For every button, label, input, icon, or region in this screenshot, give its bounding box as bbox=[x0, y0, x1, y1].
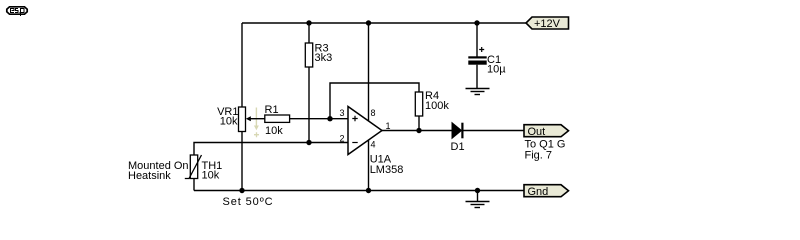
svg-text:8: 8 bbox=[371, 108, 376, 118]
ground under C1 bbox=[466, 89, 490, 95]
net label +12V bbox=[526, 17, 569, 30]
node top rail / C1 bbox=[474, 20, 479, 25]
svg-text:R1: R1 bbox=[265, 104, 279, 116]
svg-text:Fig. 7: Fig. 7 bbox=[525, 150, 553, 162]
svg-text:10k: 10k bbox=[265, 125, 283, 137]
diode D1 bbox=[451, 123, 465, 153]
wire top +12V rail bbox=[242, 22, 526, 24]
svg-text:10k: 10k bbox=[202, 170, 220, 182]
op-amp U1A bbox=[340, 107, 404, 177]
wire pin4 bbox=[368, 140, 370, 191]
svg-text:Out: Out bbox=[528, 126, 546, 138]
wire R3 top bbox=[308, 23, 310, 43]
resistor R3 bbox=[305, 43, 332, 68]
net label Out bbox=[524, 125, 569, 138]
wire wiper to R1 bbox=[250, 118, 265, 120]
wire ground stub bottom rail bbox=[477, 191, 479, 202]
wire VR1 bottom bbox=[241, 132, 243, 191]
ground bottom rail bbox=[466, 202, 490, 208]
thermistor TH1 bbox=[185, 155, 222, 182]
node bottom rail / VR1 bbox=[239, 188, 244, 193]
wire C1 top bbox=[476, 23, 478, 57]
wire D1 to Out bbox=[464, 130, 525, 132]
node top rail / pin8 bbox=[366, 20, 371, 25]
wire R1 to pin3 bbox=[290, 118, 348, 120]
net label Gnd bbox=[524, 185, 569, 198]
wire TH1 bottom bbox=[193, 179, 195, 191]
svg-text:1: 1 bbox=[386, 121, 391, 131]
svg-text:Set 50ºC: Set 50ºC bbox=[223, 196, 274, 208]
svg-text:Heatsink: Heatsink bbox=[128, 170, 171, 182]
wire R3 bottom bbox=[308, 67, 310, 143]
node R4 / output bbox=[416, 128, 421, 133]
wire C1 bottom bbox=[476, 65, 478, 89]
svg-text:Gnd: Gnd bbox=[528, 186, 549, 198]
svg-text:2: 2 bbox=[340, 134, 345, 144]
node R3 / pin2 wire bbox=[306, 140, 311, 145]
capacitor C1 bbox=[468, 47, 506, 76]
resistor R1 bbox=[265, 104, 290, 137]
svg-text:4: 4 bbox=[371, 140, 376, 150]
wire R4 bottom bbox=[418, 116, 420, 131]
svg-text:3k3: 3k3 bbox=[315, 52, 333, 64]
potentiometer VR1 bbox=[217, 106, 259, 137]
svg-text:10k: 10k bbox=[220, 116, 238, 128]
node top rail / R3 bbox=[306, 20, 311, 25]
svg-text:LM358: LM358 bbox=[370, 164, 404, 176]
wire pin8 bbox=[368, 23, 370, 121]
svg-text:+12V: +12V bbox=[534, 18, 561, 30]
wire pin2 bbox=[194, 143, 348, 156]
wire feedback riser bbox=[330, 83, 419, 119]
wire output to D1 bbox=[382, 130, 452, 132]
wire VR1 top bbox=[241, 23, 243, 107]
svg-text:D1: D1 bbox=[451, 141, 465, 153]
node bottom rail / pin4 bbox=[366, 188, 371, 193]
svg-text:100k: 100k bbox=[425, 100, 449, 112]
resistor R4 bbox=[415, 90, 449, 116]
wire bottom rail bbox=[194, 190, 524, 192]
esp logo bbox=[7, 7, 27, 16]
node pin3 / feedback bbox=[327, 116, 332, 121]
node bottom rail / ground bbox=[475, 188, 480, 193]
svg-text:10µ: 10µ bbox=[487, 64, 506, 76]
svg-text:3: 3 bbox=[340, 108, 345, 118]
